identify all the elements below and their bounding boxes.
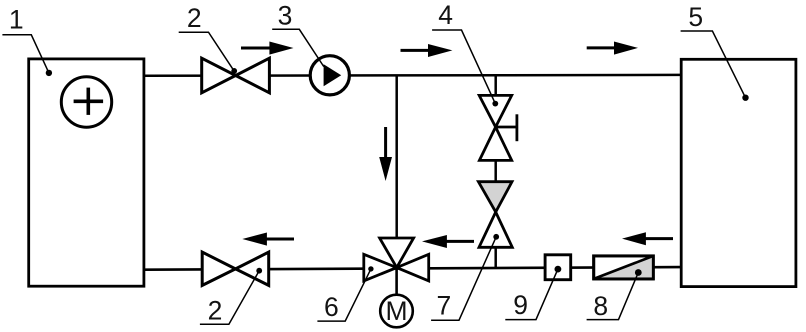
label 2 (bottom) with leader <box>200 271 259 326</box>
svg-text:9: 9 <box>513 290 528 320</box>
flow arrow top-middle (rightward) <box>401 44 453 57</box>
flow arrow top-right (rightward) <box>587 42 638 55</box>
svg-text:3: 3 <box>278 1 293 31</box>
motor M of valve 6 <box>380 295 413 328</box>
svg-text:7: 7 <box>437 291 452 321</box>
pump 3 <box>310 56 349 95</box>
consumer 5 (load rectangle) <box>681 59 796 286</box>
label 3 with leader <box>272 1 324 67</box>
flow arrow on bypass (downward) <box>379 127 392 181</box>
wire: vertical bypass riser to three-way valve <box>395 76 398 240</box>
boiler 1 (heat source rectangle) <box>29 59 144 286</box>
three-way valve 6 with motor <box>364 238 429 281</box>
label 1 with leader <box>2 4 52 76</box>
wire: stem from three-way valve to motor <box>395 268 398 295</box>
wire: top supply pipe <box>144 74 681 77</box>
label 5 with leader <box>681 2 749 101</box>
valve 4 (vertical valve with stem handle) <box>479 95 517 160</box>
label 4 with leader <box>432 0 495 104</box>
svg-text:M: M <box>385 296 407 326</box>
wire: valve 7 to return pipe <box>494 246 497 268</box>
label 7 with leader <box>431 237 496 321</box>
label 6 with leader <box>317 269 371 322</box>
wire: between valve 4 and valve 7 <box>494 159 497 183</box>
valve 2 (bottom shut-off valve) <box>202 252 269 285</box>
filter 8 (rectangle with diagonal, grey half) <box>594 256 654 279</box>
svg-text:5: 5 <box>688 2 703 32</box>
svg-text:8: 8 <box>593 291 608 321</box>
flow arrow bottom-middle (leftward) <box>422 235 474 248</box>
valve 7 (vertical balancing valve, grey top) <box>478 182 512 248</box>
label 8 with leader <box>587 273 639 321</box>
wire: vertical branch to valve 4 <box>494 75 497 97</box>
svg-text:2: 2 <box>208 296 223 326</box>
valve 2 (top shut-off valve) <box>202 58 270 93</box>
label 9 with leader <box>505 269 558 320</box>
svg-text:4: 4 <box>438 0 453 30</box>
sensor 9 (small square) <box>545 255 571 280</box>
svg-text:6: 6 <box>324 292 339 322</box>
svg-text:2: 2 <box>187 3 202 33</box>
flow arrow bottom-left (leftward) <box>242 233 294 246</box>
svg-text:1: 1 <box>9 4 24 34</box>
wire: bottom return pipe <box>144 267 681 270</box>
flow arrow bottom-right (leftward) <box>622 232 673 245</box>
boiler burner symbol (circle with plus) <box>61 77 111 127</box>
flow arrow top-left (rightward) <box>241 42 294 55</box>
label 2 (top) with leader <box>179 3 234 71</box>
